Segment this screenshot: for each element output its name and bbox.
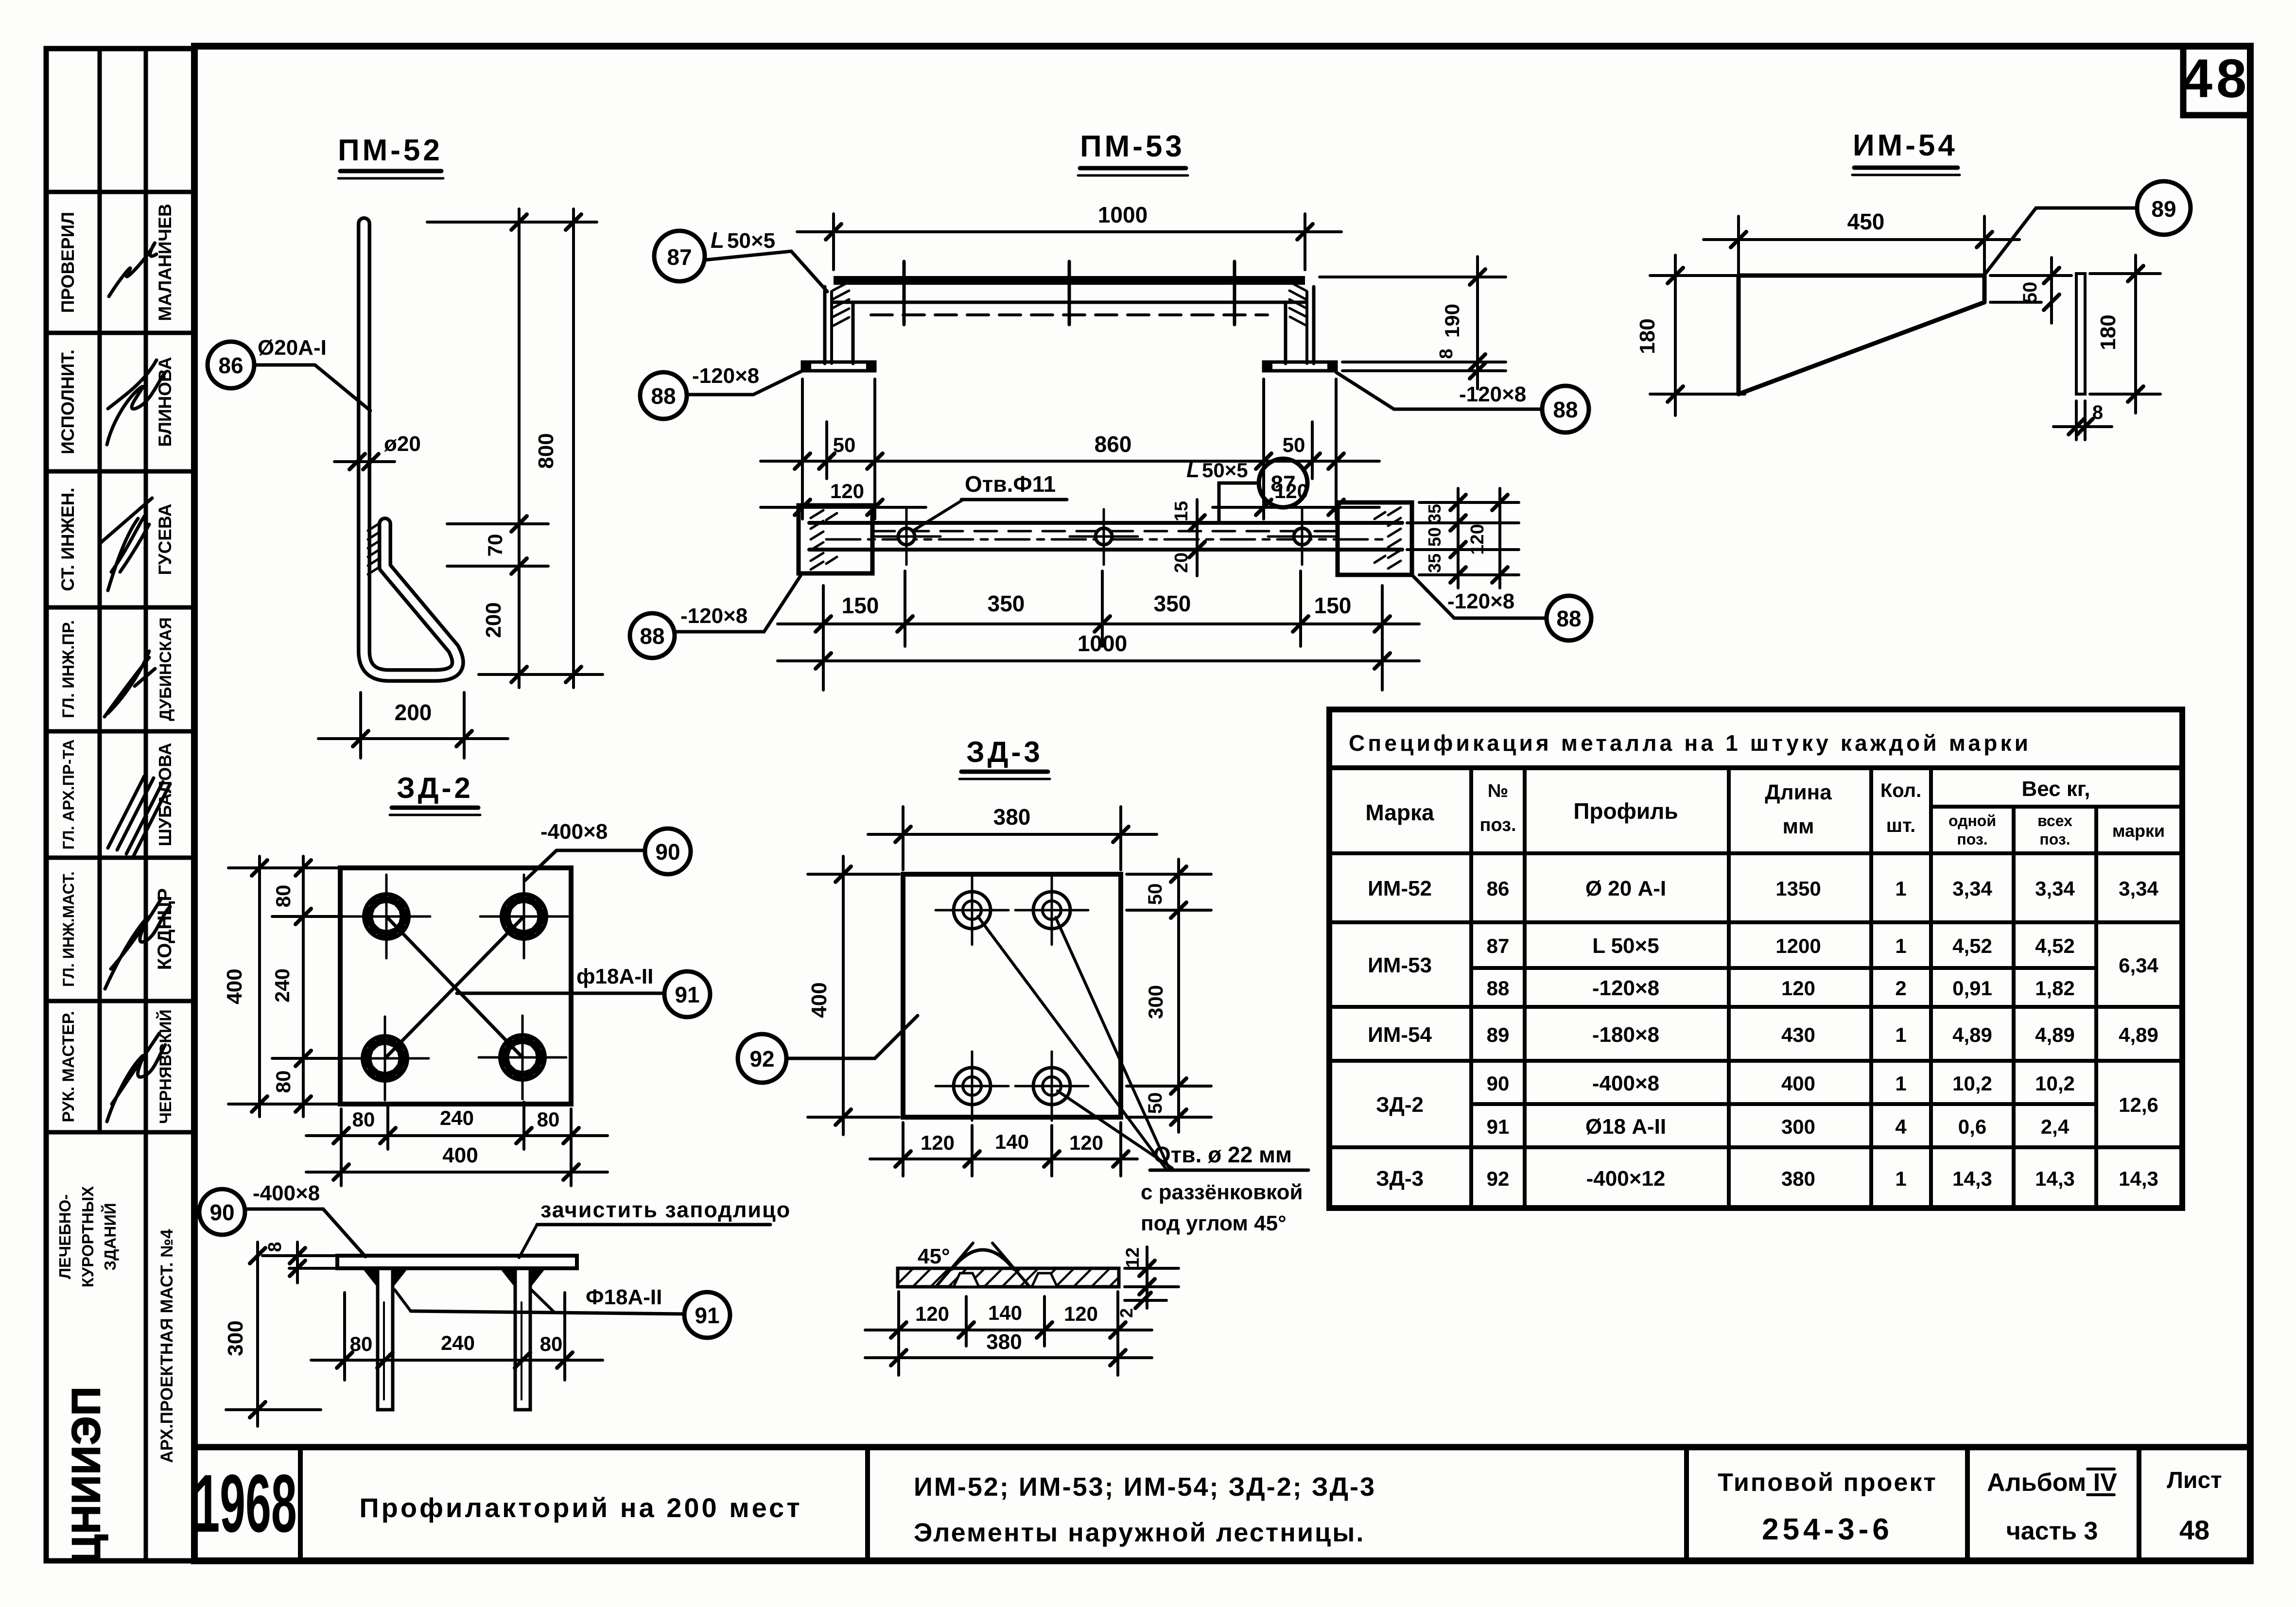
svg-text:1200: 1200 [1775,934,1821,957]
svg-text:87: 87 [1270,471,1295,496]
svg-text:одной: одной [1948,812,1996,829]
stamp sidebar grid [46,49,194,1561]
title block sheet no [2167,1468,2222,1545]
svg-text:поз.: поз. [1479,815,1516,835]
svg-text:45°: 45° [918,1244,950,1268]
svg-text:зачистить заподлицо: зачистить заподлицо [540,1197,791,1222]
ZD-3 section dim 2 [1125,1299,1166,1302]
svg-text:-400×8: -400×8 [1592,1071,1659,1095]
svg-text:ПРОВЕРИЛ: ПРОВЕРИЛ [58,212,78,313]
svg-text:350: 350 [988,591,1025,616]
ZD-2 anchor holes [341,875,568,1100]
IM-54 dim 180 left [1650,255,1745,415]
svg-text:88: 88 [1553,397,1578,422]
spec table heading [1349,730,2029,756]
svg-text:89: 89 [2151,196,2176,222]
ZD-3 bottom dims 120 140 120 [870,1123,1137,1176]
stamp row labels column [58,212,78,1123]
svg-text:8: 8 [265,1242,285,1252]
svg-text:-400×8: -400×8 [540,820,608,844]
ZD-3 hole leaders [978,916,1172,1168]
PM-52 bottom dim 200 [318,692,508,758]
spec table weight one column [1952,877,1992,1190]
PM-53 plan bar [809,523,1402,550]
workshop cell text [157,1229,176,1463]
ZD-2 title [390,772,480,815]
svg-text:3,34: 3,34 [2119,877,2158,900]
svg-text:89: 89 [1487,1023,1510,1046]
spec table qty column [1895,877,1907,1190]
svg-text:150: 150 [1314,593,1352,618]
svg-text:88: 88 [651,383,676,409]
svg-text:240: 240 [440,1106,474,1129]
svg-text:12,6: 12,6 [2119,1093,2158,1116]
svg-text:3,34: 3,34 [2035,877,2075,900]
svg-text:87: 87 [667,244,692,270]
svg-text:14,3: 14,3 [2035,1167,2075,1190]
title block project number [1718,1469,1937,1546]
svg-text:Длина: Длина [1765,780,1832,804]
svg-text:80: 80 [272,1071,295,1093]
svg-text:Вес кг,: Вес кг, [2021,777,2090,801]
PM-53 title [1078,130,1188,175]
PM-53 right flange plate [1264,361,1336,372]
svg-text:ЧЕРНЯВСКИЙ: ЧЕРНЯВСКИЙ [156,1009,175,1124]
svg-text:91: 91 [675,982,699,1007]
IM-54 callout 89 [1985,181,2191,274]
svg-text:190: 190 [1441,304,1463,338]
svg-text:Отв. ø 22 мм: Отв. ø 22 мм [1153,1142,1292,1167]
svg-text:860: 860 [1095,432,1132,457]
svg-text:380: 380 [993,804,1031,829]
spec table profile column [1585,877,1666,1191]
svg-text:50×5: 50×5 [727,229,775,253]
svg-text:92: 92 [1487,1167,1510,1190]
svg-text:4,89: 4,89 [2119,1023,2158,1046]
PM-52 weld hatch between rod and stub [368,524,379,574]
svg-text:Альбом IV: Альбом IV [1987,1469,2117,1497]
svg-text:80: 80 [540,1332,563,1355]
PM-53 plan L50x5 callout 87 [1186,458,1307,523]
ZD-2 diagonals [385,916,524,1058]
svg-text:ГУСЕВА: ГУСЕВА [155,504,175,575]
svg-text:88: 88 [640,623,664,649]
ZD-2 callout 91 [457,965,710,1017]
svg-text:Ø18 А-II: Ø18 А-II [1585,1115,1666,1139]
svg-text:50: 50 [1283,433,1305,456]
spec table mark column [1368,877,1432,1191]
svg-text:Ø20А-I: Ø20А-I [258,336,327,360]
svg-text:50: 50 [2019,282,2041,304]
svg-text:48: 48 [2182,48,2251,109]
PM-52 dim ticks [511,214,581,682]
ZD-2 section note flush grinding [519,1197,791,1258]
title block album [1987,1469,2117,1545]
PM-53 left leg [825,282,853,363]
PM-53 bottom dims 50 860 50 [761,379,1379,519]
svg-text:1350: 1350 [1775,877,1821,900]
svg-text:8: 8 [2092,402,2103,423]
PM-53 right dim 190 [1320,257,1506,389]
svg-text:50×5: 50×5 [1202,459,1248,482]
svg-text:ИМ-52: ИМ-52 [1368,877,1432,900]
title block grid [194,1447,2250,1561]
svg-text:СТ. ИНЖЕН.: СТ. ИНЖЕН. [58,487,78,591]
svg-text:1: 1 [1895,1167,1906,1190]
ZD-2 section plate [337,1256,577,1268]
svg-text:150: 150 [842,593,879,618]
svg-text:140: 140 [995,1130,1029,1153]
svg-text:80: 80 [350,1332,373,1355]
PM-53 plan left end plate [799,505,872,573]
PM-52 title [338,134,443,178]
svg-text:88: 88 [1487,977,1510,1000]
svg-text:400: 400 [1781,1072,1815,1095]
svg-text:50: 50 [833,433,856,456]
svg-text:300: 300 [1144,985,1167,1019]
svg-text:ГЛ. ИНЖ.ПР.: ГЛ. ИНЖ.ПР. [59,620,78,718]
svg-text:254-3-6: 254-3-6 [1762,1513,1893,1546]
PM-52 bent rod body [364,224,458,675]
svg-text:1: 1 [1895,877,1906,900]
svg-text:380: 380 [1781,1167,1815,1190]
PM-53 top dim 1000 [797,214,1341,270]
svg-text:№: № [1488,781,1508,801]
svg-text:120: 120 [921,1131,955,1154]
svg-text:180: 180 [2096,314,2120,350]
svg-text:35: 35 [1425,504,1444,523]
sheet number box 48 [2182,46,2251,115]
ZD-3 section dim 380 [865,1356,1152,1359]
svg-text:Ø 20 А-I: Ø 20 А-I [1585,877,1666,900]
PM-52 dim label 800 [534,433,558,468]
title block project name [359,1492,802,1523]
ZD-2 section dim 8 [262,1242,337,1283]
svg-text:70: 70 [484,534,506,557]
PM-53 right leg [1286,282,1314,363]
title block year 1968 [194,1458,296,1550]
svg-text:400: 400 [223,968,246,1004]
svg-text:200: 200 [482,602,505,638]
ZD-3 plate 380x400 [903,874,1121,1117]
svg-text:88: 88 [1556,606,1581,631]
ZD-2 left dims 80 240 80 [228,856,343,1117]
PM-53 callout 88 left [640,364,802,419]
svg-text:120: 120 [1064,1302,1098,1325]
svg-text:1000: 1000 [1078,631,1127,656]
svg-text:-120×8: -120×8 [1592,976,1659,1000]
svg-text:350: 350 [1154,591,1191,616]
spec table column headers [1365,777,2165,848]
svg-text:часть 3: часть 3 [2006,1517,2098,1545]
spec table weight all column [2035,877,2075,1190]
svg-text:ф18А-II: ф18А-II [576,965,653,988]
svg-text:ИМ-52; ИМ-53; ИМ-54; ЗД-2;: ИМ-52; ИМ-53; ИМ-54; ЗД-2; ЗД-3 [914,1472,1376,1502]
svg-text:-400×8: -400×8 [253,1181,320,1205]
title block sheet content [914,1472,1376,1547]
ZD-2 section callout 90 [199,1181,365,1257]
ZD-3 countersunk holes [936,876,1088,1121]
svg-text:6,34: 6,34 [2119,954,2158,977]
svg-text:380: 380 [986,1330,1022,1354]
PM-53 plan bottom dims 150 350 350 150 [778,571,1419,690]
spec table weight mark column [2119,877,2158,1190]
ZD-2 section bottom dims 80 240 80 [311,1293,603,1380]
svg-text:-120×8: -120×8 [1447,589,1514,613]
svg-text:под углом 45°: под углом 45° [1141,1211,1287,1235]
svg-text:2: 2 [1895,977,1906,1000]
svg-text:87: 87 [1487,934,1510,957]
ZD-3 section dim 12 [1125,1247,1179,1308]
spec table grid [1329,709,2182,1208]
PM-53 member hole centre ticks [904,261,1235,325]
svg-text:-120×8: -120×8 [1459,382,1526,406]
svg-text:Типовой проект: Типовой проект [1718,1469,1937,1497]
svg-text:ЗД-2: ЗД-2 [1376,1093,1424,1117]
svg-text:поз.: поз. [2039,830,2070,848]
svg-text:92: 92 [749,1046,774,1071]
svg-text:ИСПОЛНИТ.: ИСПОЛНИТ. [58,349,78,454]
svg-text:240: 240 [271,968,294,1002]
svg-text:450: 450 [1847,209,1885,234]
svg-text:L 50×5: L 50×5 [1592,934,1659,958]
PM-53 left flange plate [802,361,875,372]
svg-text:90: 90 [209,1200,234,1225]
svg-text:50: 50 [1145,1092,1166,1114]
svg-text:марки: марки [2112,821,2165,841]
PM-53 plan callout 88 right [1412,575,1591,640]
PM-53 plan right dims 35 50 35 [1407,488,1519,588]
svg-text:2,4: 2,4 [2041,1115,2070,1138]
svg-text:ЗД-2: ЗД-2 [397,772,473,804]
svg-text:1968: 1968 [194,1458,296,1550]
svg-text:91: 91 [1487,1115,1510,1138]
stamp names column [154,204,175,1124]
svg-text:с раззёнковкой: с раззёнковкой [1141,1180,1303,1204]
PM-52 dim label 70 [484,534,506,557]
svg-text:-120×8: -120×8 [680,604,748,628]
svg-text:Отв.Ф11: Отв.Ф11 [965,471,1056,497]
svg-text:120: 120 [1467,524,1488,554]
svg-text:90: 90 [1487,1072,1510,1095]
spec table length column [1775,877,1821,1190]
PM-52 dim label 200 [482,602,505,638]
svg-text:ЦНИИЭП: ЦНИИЭП [64,1386,108,1564]
spec table position column [1487,877,1510,1190]
ZD-3 section 45 deg mark [918,1243,1028,1285]
PM-53 angle member L50x5 [834,276,1305,315]
svg-text:ЗД-3: ЗД-3 [966,736,1043,768]
svg-text:1,82: 1,82 [2035,977,2075,1000]
svg-text:20: 20 [1171,553,1192,573]
svg-text:140: 140 [988,1301,1022,1324]
IM-54 title [1852,129,1960,175]
svg-text:800: 800 [534,433,558,468]
svg-text:Марка: Марка [1365,800,1434,825]
svg-text:8: 8 [1436,348,1457,359]
svg-text:120: 120 [1781,977,1815,1000]
svg-text:1: 1 [1895,1072,1906,1095]
IM-54 trapezoid plate [1739,276,1984,394]
svg-text:-180×8: -180×8 [1592,1023,1659,1047]
svg-text:50: 50 [1145,883,1166,905]
svg-text:10,2: 10,2 [1952,1072,1992,1095]
svg-text:ПМ-53: ПМ-53 [1080,130,1185,163]
svg-text:80: 80 [352,1108,375,1131]
svg-text:РУК. МАСТЕР.: РУК. МАСТЕР. [59,1011,78,1122]
ZD-3 top dim 380 [868,807,1157,870]
PM-53 callout 88 right [1336,372,1589,432]
svg-text:48: 48 [2179,1515,2209,1545]
svg-text:Кол.: Кол. [1880,780,1921,801]
svg-text:200: 200 [395,700,432,725]
PM-52 rod diameter label o20 [334,432,421,469]
stamp org cell text [56,1186,119,1288]
PM-53 plan holes [872,509,1336,565]
svg-text:4,52: 4,52 [2035,934,2075,957]
PM-53 plan right end plate [1338,502,1412,575]
svg-text:-400×12: -400×12 [1586,1167,1666,1191]
PM-53 callout 87 [654,227,827,292]
svg-text:4,89: 4,89 [2035,1023,2075,1046]
svg-text:91: 91 [695,1303,719,1328]
ZD-3 title [959,736,1050,779]
svg-text:всех: всех [2037,812,2072,829]
svg-text:1000: 1000 [1098,202,1148,227]
svg-text:ИМ-54: ИМ-54 [1853,129,1958,162]
svg-text:400: 400 [807,982,831,1018]
svg-text:МАЛАНИЧЕВ: МАЛАНИЧЕВ [155,204,175,321]
svg-text:БЛИНОВА: БЛИНОВА [155,357,175,447]
ZD-2 callout 90 [525,820,691,881]
svg-text:ГЛ. АРХ.ПР-ТА: ГЛ. АРХ.ПР-ТА [60,740,77,850]
svg-text:поз.: поз. [1957,830,1987,848]
CNIIEP logo [64,1386,108,1564]
svg-text:Элементы наружной лестницы.: Элементы наружной лестницы. [914,1518,1365,1547]
svg-text:ИМ-54: ИМ-54 [1368,1023,1432,1047]
svg-text:ГЛ. ИНЖ.МАСТ.: ГЛ. ИНЖ.МАСТ. [60,871,77,987]
svg-text:35: 35 [1425,553,1444,573]
svg-text:Лист: Лист [2167,1468,2222,1493]
svg-text:мм: мм [1782,814,1814,838]
PM-53 plan offset dims 15 20 [1171,500,1205,576]
svg-text:120: 120 [830,480,864,502]
svg-text:ЛЕЧЕБНО-: ЛЕЧЕБНО- [56,1194,74,1279]
svg-text:180: 180 [1635,318,1659,354]
svg-text:1: 1 [1895,1023,1906,1046]
ZD-2 section dim 300 [226,1242,321,1426]
svg-text:90: 90 [655,839,680,864]
svg-text:Профиль: Профиль [1573,798,1678,824]
svg-text:2: 2 [1116,1308,1136,1318]
svg-text:86: 86 [218,353,243,378]
signature squiggles column [101,243,170,1122]
ZD-2 section anchor bars [378,1268,530,1410]
ZD-3 section bottom dims 120 140 120 [865,1292,1152,1375]
svg-text:80: 80 [272,885,295,908]
svg-text:ДУБИНСКАЯ: ДУБИНСКАЯ [157,617,175,721]
PM-53 plan hole note Otv F11 [912,471,1067,531]
svg-text:300: 300 [224,1320,247,1356]
svg-text:15: 15 [1171,501,1192,521]
svg-text:0,6: 0,6 [1958,1115,1986,1138]
svg-text:14,3: 14,3 [1952,1167,1992,1190]
svg-text:Ф18А-II: Ф18А-II [586,1285,662,1309]
svg-text:120: 120 [1069,1131,1103,1154]
IM-54 side dim 180 [2090,255,2160,413]
IM-54 dim 50 right [1990,258,2071,323]
svg-text:ПМ-52: ПМ-52 [338,134,443,167]
ZD-3 left dim 400 [808,856,899,1135]
svg-text:ЗДАНИЙ: ЗДАНИЙ [101,1203,119,1270]
ZD-2 plate 400x400 [340,868,571,1104]
PM-53 bottom dims 120 120 [761,506,1379,509]
svg-text:86: 86 [1487,877,1510,900]
svg-text:4,52: 4,52 [1952,934,1992,957]
PM-52 callout 86 [208,336,370,411]
svg-text:КУРОРТНЫХ: КУРОРТНЫХ [79,1186,97,1288]
IM-54 dim 450 [1704,216,2019,282]
PM-52 dim 70 and 200 extension lines [427,209,603,688]
svg-text:АРХ.ПРОЕКТНАЯ МАСТ. №4: АРХ.ПРОЕКТНАЯ МАСТ. №4 [157,1229,176,1463]
svg-text:300: 300 [1781,1115,1815,1138]
ZD-3 callout 92 [738,1016,918,1083]
ZD-2 bottom dims 80 240 80 [306,1102,608,1186]
PM-53 right dim 8 [1342,369,1506,372]
ZD-2 bottom dim 400 [306,1171,608,1174]
svg-text:430: 430 [1781,1023,1815,1046]
IM-54 side view thin bar [2076,274,2085,394]
svg-text:400: 400 [442,1143,478,1167]
svg-text:3,34: 3,34 [1952,877,1992,900]
svg-text:10,2: 10,2 [2035,1072,2075,1095]
svg-text:240: 240 [441,1331,475,1354]
svg-text:4,89: 4,89 [1952,1023,1992,1046]
svg-text:ø20: ø20 [384,432,421,456]
svg-text:ИМ-53: ИМ-53 [1368,953,1432,977]
svg-text:80: 80 [537,1108,560,1131]
ZD-3 right dims 50 300 50 [1127,859,1211,1132]
svg-text:4: 4 [1895,1115,1907,1138]
ZD-3 hole note [1141,1142,1308,1235]
svg-text:L: L [1186,458,1200,482]
svg-text:0,91: 0,91 [1952,977,1992,1000]
svg-text:12: 12 [1123,1247,1143,1268]
svg-text:Профилакторий на 200 мест: Профилакторий на 200 мест [359,1492,802,1523]
svg-text:50: 50 [1425,527,1444,547]
ZD-2 section callout 91 bars [395,1285,730,1338]
IM-54 side dim 8 [2053,401,2112,440]
svg-text:14,3: 14,3 [2119,1167,2158,1190]
ZD-3 section hatched bar [898,1268,1119,1287]
svg-text:ЗД-3: ЗД-3 [1376,1167,1424,1191]
PM-53 plan bottom dim 1000 [778,659,1419,662]
svg-text:Спецификация металла на 1 ш: Спецификация металла на 1 штуку каждой м… [1349,730,2029,756]
svg-text:120: 120 [915,1302,949,1325]
PM-53 plan callout 88 left [630,576,800,658]
svg-text:шт.: шт. [1886,815,1916,836]
svg-text:-120×8: -120×8 [692,364,759,388]
ZD-2 section welds [363,1269,545,1288]
svg-text:1: 1 [1895,934,1906,957]
svg-text:L: L [711,227,724,253]
